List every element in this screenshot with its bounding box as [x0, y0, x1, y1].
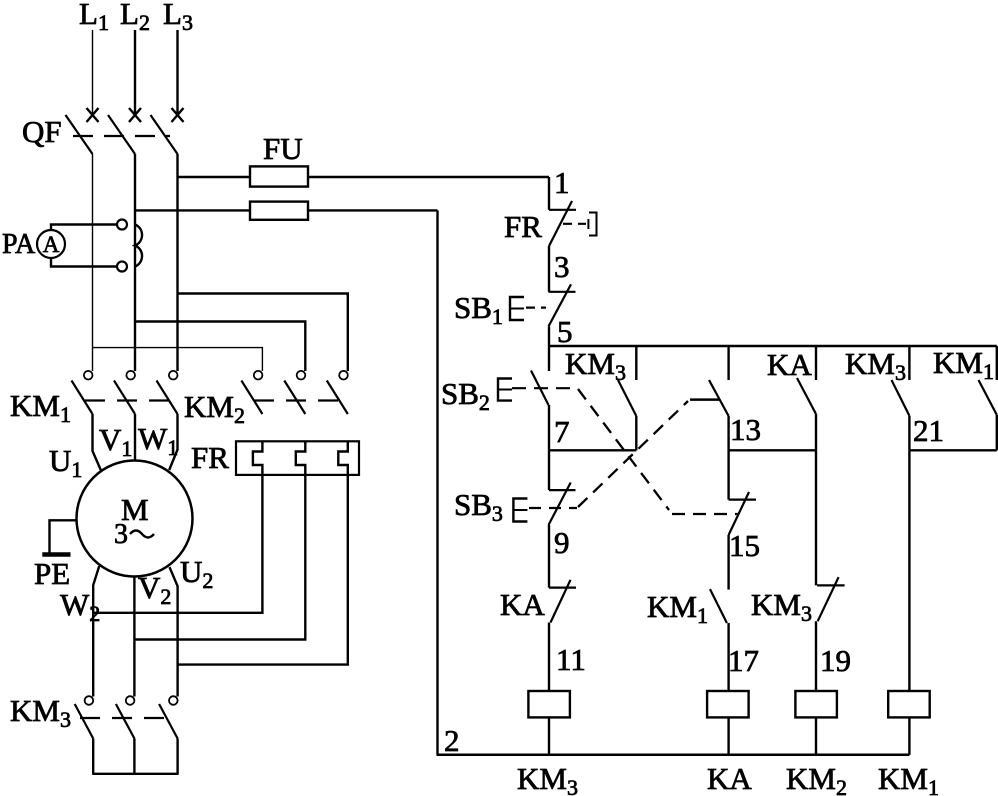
contactor KM3 main contacts	[10, 693, 178, 739]
wire contact15 to KM1contact	[727, 535, 729, 590]
coil KA	[707, 691, 752, 796]
linkage SB2 to contact15	[578, 389, 738, 514]
label U1	[49, 443, 82, 482]
wire KA-NC to KM3 coil	[548, 623, 550, 692]
svg-text:7: 7	[554, 414, 570, 449]
wire KM3 coil out	[548, 717, 550, 754]
wire node21 to KM1 coil	[908, 450, 910, 691]
wire bus node5	[549, 345, 997, 348]
wire FR2 to V2	[134, 475, 305, 640]
label U2	[180, 554, 213, 593]
wire fuse1 feed	[178, 176, 550, 178]
wire node7 link	[549, 449, 636, 451]
svg-text:KA: KA	[767, 347, 812, 382]
fuse FU2	[250, 202, 308, 220]
svg-text:FU: FU	[263, 131, 303, 166]
wire node5 drop	[548, 326, 550, 346]
svg-text:2: 2	[444, 723, 460, 758]
svg-text:21: 21	[913, 413, 944, 448]
node 13	[730, 412, 761, 447]
coil KM2	[786, 691, 847, 796]
wire L1 to KM1	[92, 154, 94, 371]
wire L2 to KM1	[134, 154, 136, 371]
node L1	[79, 0, 109, 35]
wire L3 to KM2 pole3	[178, 294, 348, 372]
wire V2 lead	[133, 577, 135, 697]
thermal relay FR NC contact	[504, 201, 597, 246]
svg-text:FR: FR	[191, 440, 229, 475]
wire L3 drop	[176, 30, 178, 115]
wire star bar	[92, 773, 178, 775]
wire node1 drop	[548, 177, 550, 210]
wire KA coil out	[727, 717, 729, 754]
wire KM3 pole2 out	[133, 739, 135, 774]
wire KM3 pole1 out	[92, 739, 94, 774]
reverse button SB3 NC	[454, 450, 577, 526]
svg-text:15: 15	[729, 528, 760, 563]
wire L2 drop	[134, 30, 136, 115]
wire node13 to KM3nc	[815, 450, 817, 585]
coil KM1	[878, 691, 939, 796]
motor M 3~	[77, 461, 193, 577]
wire FR1 to W2	[93, 475, 262, 613]
wire KM1 coil out	[908, 717, 910, 754]
node 21	[913, 413, 944, 448]
breaker QF	[22, 108, 184, 154]
node 17	[728, 643, 759, 678]
svg-text:13: 13	[730, 412, 761, 447]
wire L1 to KM2 pole1	[93, 348, 263, 371]
contactor KM3 NO contact right	[845, 346, 909, 450]
node L2	[120, 0, 150, 35]
relay KA NC contact (11)	[500, 580, 576, 623]
label W2	[60, 587, 100, 626]
wire to KA coil	[727, 623, 729, 691]
ground PE	[34, 520, 77, 591]
node 1	[554, 165, 570, 200]
wire W2 lead	[93, 566, 99, 696]
contactor KM3 NC contact (19)	[751, 577, 845, 626]
relay KA NO contact	[767, 346, 816, 450]
svg-text:17: 17	[728, 643, 759, 678]
wire L3 to KM1	[176, 154, 178, 371]
label V2	[138, 570, 171, 609]
svg-text:3: 3	[114, 519, 128, 550]
svg-text:KA: KA	[500, 587, 545, 622]
wire node9	[548, 525, 550, 588]
node 15	[729, 528, 760, 563]
linkage SB3 to contact13	[578, 400, 720, 507]
wire KM1 to motor W1	[169, 414, 177, 470]
wire L2 to KM2 pole2	[135, 322, 305, 372]
svg-text:PA: PA	[2, 229, 36, 260]
svg-text:PE: PE	[34, 556, 70, 591]
stop button SB1 NC	[454, 284, 576, 329]
svg-text:9: 9	[554, 525, 570, 560]
contactor KM1 main contacts	[10, 371, 178, 427]
wire rail node2	[436, 210, 438, 754]
node 2	[444, 723, 460, 758]
wire U2 lead	[170, 567, 178, 696]
ammeter PA	[2, 225, 117, 267]
node 19	[820, 643, 851, 678]
node 5	[557, 314, 573, 349]
wire SB2 to node7	[548, 405, 550, 450]
wire bus node2	[437, 754, 910, 757]
svg-text:5: 5	[557, 314, 573, 349]
svg-text:A: A	[43, 232, 60, 257]
wire KM3 pole3 out	[176, 739, 178, 774]
contactor KM3 aux NO contact	[565, 346, 636, 450]
label FU	[263, 131, 303, 166]
wire fuse2 feed	[135, 209, 438, 211]
wire KM2 coil out	[815, 717, 817, 754]
button-linked contact NO (13)	[709, 346, 729, 450]
svg-text:3: 3	[554, 249, 570, 284]
wire to KM2 coil	[815, 621, 817, 691]
button-linked contact NC (15)	[729, 450, 756, 535]
contactor KM1 NO contact right	[933, 345, 997, 450]
svg-text:19: 19	[820, 643, 851, 678]
label W1	[138, 421, 178, 460]
svg-text:QF: QF	[22, 114, 62, 149]
contactor KM1 contact (17)	[647, 589, 727, 628]
wire KM1 to motor U1	[93, 414, 101, 470]
svg-text:11: 11	[556, 642, 586, 677]
label V1	[99, 422, 132, 461]
wire node21 link	[909, 449, 996, 451]
contactor KM2 main contacts	[184, 371, 348, 428]
fuse FU1	[250, 166, 308, 186]
svg-text:KA: KA	[707, 761, 752, 796]
node 9	[554, 525, 570, 560]
thermal relay FR heaters	[191, 440, 359, 475]
wire node13 link	[729, 449, 816, 451]
coil KM3	[517, 691, 578, 796]
node 7	[554, 414, 570, 449]
svg-text:FR: FR	[504, 209, 542, 244]
wire KM1 to motor V1	[134, 414, 136, 461]
wire node3	[548, 246, 550, 292]
node 3	[554, 249, 570, 284]
node 11	[556, 642, 586, 677]
current transformer TA	[117, 220, 142, 272]
wire FR3 to U2	[178, 475, 348, 665]
start button SB2 NO	[441, 346, 577, 415]
wire L1 drop	[92, 30, 94, 115]
node L3	[163, 0, 193, 35]
svg-text:1: 1	[554, 165, 570, 200]
